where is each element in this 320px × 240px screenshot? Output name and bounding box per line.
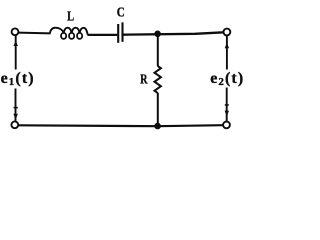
resistor R zigzag [155,66,161,93]
left vertical wire lower segment [15,89,17,122]
capacitor C left plate [117,24,119,43]
wire top-left segment [18,32,50,35]
right vertical wire lower segment [226,88,228,122]
inductor loop 3 [77,33,82,39]
junction node top [154,31,161,38]
arrowhead up left [14,40,18,46]
svg-text:e1(t): e1(t) [1,70,35,88]
terminal top-right [224,29,231,36]
wire inductor to capacitor [87,34,117,36]
arrowhead down right [225,111,229,117]
inductor L coil [50,28,88,35]
svg-text:C: C [117,6,125,21]
right vertical wire upper segment [226,35,228,69]
terminal top-left [12,28,19,35]
inductor loop 2 [69,33,74,39]
arrowhead up right [225,43,229,48]
capacitor C right plate [121,22,123,41]
inductor loop 1 [61,33,66,39]
resistor branch top lead [157,34,159,66]
tick right lower [225,104,229,106]
left vertical wire upper segment [15,35,17,69]
terminal bottom-right [223,122,230,129]
svg-text:e2(t): e2(t) [210,70,244,88]
wire capacitor to top-right terminal [123,32,223,34]
tick left lower [14,107,18,109]
arrowhead down left [13,114,17,120]
junction node bottom [154,123,161,130]
svg-text:R: R [140,72,148,87]
bottom wire [18,125,223,126]
terminal bottom-left [11,121,18,128]
resistor branch bottom lead [157,93,159,126]
svg-text:L: L [67,10,74,25]
